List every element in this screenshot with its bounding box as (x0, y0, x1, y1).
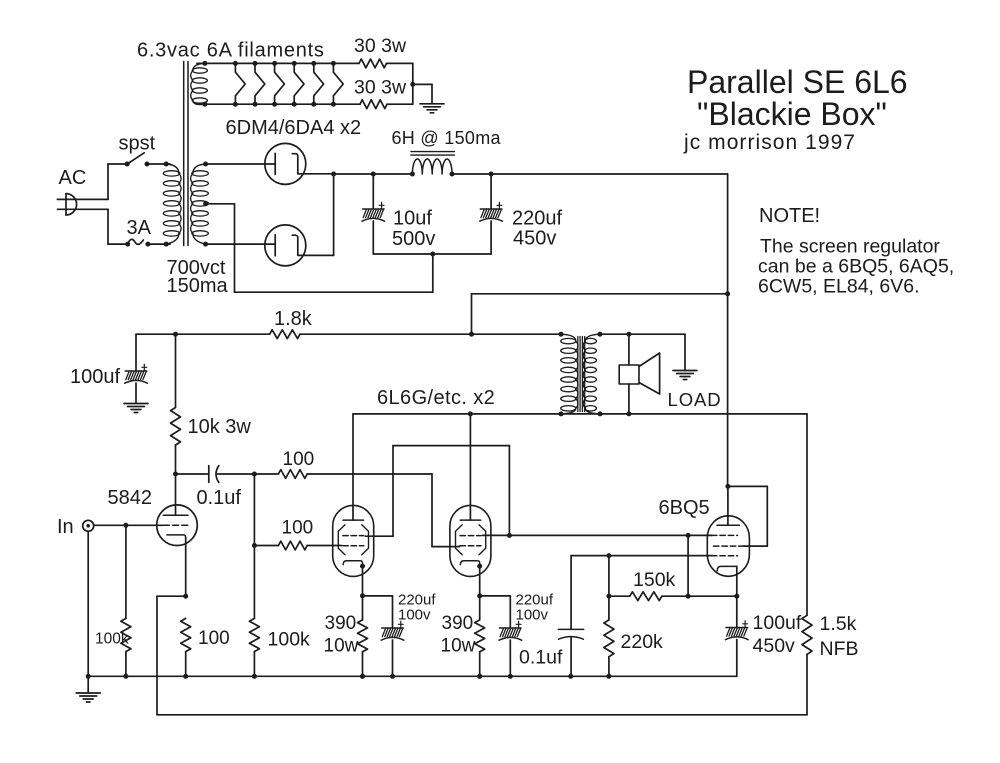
svg-text:LOAD: LOAD (668, 389, 722, 410)
svg-text:220k: 220k (621, 631, 664, 653)
svg-text:150k: 150k (633, 569, 676, 591)
svg-text:10k 3w: 10k 3w (188, 416, 252, 438)
svg-text:NOTE!: NOTE! (759, 205, 820, 227)
svg-text:100uf: 100uf (753, 612, 802, 634)
svg-text:390: 390 (325, 613, 357, 634)
svg-text:jc morrison 1997: jc morrison 1997 (683, 131, 856, 154)
svg-text:30 3w: 30 3w (354, 77, 407, 99)
svg-text:can be a 6BQ5, 6AQ5,: can be a 6BQ5, 6AQ5, (758, 256, 954, 278)
svg-text:30 3w: 30 3w (354, 35, 407, 57)
svg-text:NFB: NFB (820, 638, 859, 660)
svg-text:6BQ5: 6BQ5 (659, 497, 710, 519)
svg-text:100uf: 100uf (70, 366, 120, 388)
svg-text:10uf: 10uf (393, 208, 432, 230)
svg-text:390: 390 (442, 613, 474, 634)
svg-text:100v: 100v (398, 607, 431, 624)
svg-text:Parallel SE 6L6: Parallel SE 6L6 (687, 64, 908, 100)
svg-text:spst: spst (119, 133, 156, 155)
svg-text:6CW5, EL84, 6V6.: 6CW5, EL84, 6V6. (758, 276, 920, 298)
svg-text:5842: 5842 (108, 487, 153, 509)
svg-text:6.3vac 6A filaments: 6.3vac 6A filaments (137, 40, 325, 62)
svg-text:6H @ 150ma: 6H @ 150ma (392, 128, 502, 148)
svg-text:100: 100 (283, 449, 315, 470)
svg-text:220uf: 220uf (512, 208, 562, 230)
svg-text:6L6G/etc. x2: 6L6G/etc. x2 (377, 387, 495, 409)
svg-text:The screen regulator: The screen regulator (760, 236, 940, 258)
svg-text:1.8k: 1.8k (274, 308, 313, 330)
svg-text:3A: 3A (127, 217, 152, 239)
svg-text:1.5k: 1.5k (820, 613, 857, 635)
svg-text:150ma: 150ma (167, 275, 229, 297)
svg-text:100v: 100v (516, 607, 549, 624)
svg-text:500v: 500v (392, 228, 435, 250)
svg-text:6DM4/6DA4 x2: 6DM4/6DA4 x2 (226, 117, 362, 139)
svg-text:100k: 100k (268, 629, 311, 651)
svg-text:100: 100 (282, 518, 314, 539)
svg-text:0.1uf: 0.1uf (519, 647, 563, 669)
svg-text:450v: 450v (513, 228, 556, 250)
svg-text:"Blackie Box": "Blackie Box" (697, 96, 887, 132)
svg-text:0.1uf: 0.1uf (197, 487, 242, 509)
svg-text:450v: 450v (753, 635, 796, 657)
svg-text:100: 100 (198, 628, 230, 649)
svg-text:AC: AC (59, 167, 87, 189)
svg-text:In: In (57, 516, 74, 538)
svg-text:10w: 10w (441, 636, 476, 657)
svg-text:100k: 100k (95, 631, 129, 648)
svg-text:10w: 10w (324, 636, 359, 657)
